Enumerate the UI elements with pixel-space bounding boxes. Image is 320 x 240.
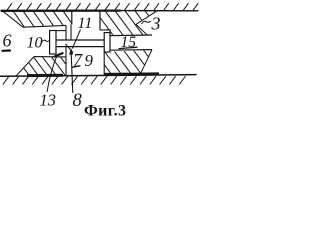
top-right wall right cut edges — [136, 11, 157, 35]
top-left wall left cut edge — [3, 11, 24, 27]
bottom-right block hatching — [93, 50, 162, 76]
bottom-right block left edge — [103, 52, 105, 75]
stem right line below wall — [70, 25, 72, 40]
svg-text:6: 6 — [3, 31, 12, 51]
leader line for 13 — [47, 56, 57, 93]
svg-text:11: 11 — [78, 15, 93, 32]
rod 7 bottom line — [56, 46, 104, 48]
bottom-left block hatching — [15, 56, 75, 76]
arrow 8 head — [69, 48, 73, 55]
floor surface line — [1, 75, 197, 77]
svg-text:3: 3 — [151, 14, 161, 34]
leader squiggle for 10 — [42, 40, 50, 42]
flange 10 (left disc) — [50, 31, 56, 55]
piston 9 (right disc) — [104, 33, 110, 52]
svg-text:9: 9 — [85, 51, 94, 70]
leader line for 7 — [66, 44, 74, 53]
bottom-left block top edge — [34, 56, 66, 58]
channel 15 top line — [110, 34, 152, 37]
svg-text:10: 10 — [27, 35, 43, 52]
top-left wall section hatching — [3, 11, 75, 28]
label 7 underline — [73, 66, 81, 67]
svg-text:13: 13 — [40, 91, 57, 110]
floor thick segment under right block — [104, 72, 159, 76]
wire: top wall outer surface line — [2, 9, 121, 11]
hatch ticks above top wall surface — [7, 3, 199, 11]
bottom-left block left cut edge — [16, 57, 34, 76]
background paper — [0, 0, 200, 120]
weld mark at flange bottom — [55, 53, 63, 56]
label 6 underline — [3, 49, 11, 51]
channel 15 bottom line — [110, 49, 152, 52]
leader squiggle for 3 — [142, 21, 151, 24]
top-right wall slot bottom edge above piston 9 — [100, 30, 110, 36]
svg-text:8: 8 — [73, 91, 83, 111]
bottom-right block right cut edge — [140, 50, 152, 75]
leader line for 11 — [72, 30, 80, 49]
hatch ticks below floor — [3, 76, 186, 84]
top-right wall section hatching — [95, 11, 174, 37]
top-left wall bottom edge — [23, 25, 66, 27]
stem left line / boss right edge — [65, 25, 67, 40]
boss top edge right of flange — [56, 30, 66, 32]
top-left wall right edge at window 11 — [71, 11, 73, 25]
top-right wall left edge at window 11 — [99, 11, 101, 30]
rod 7 top line — [56, 39, 104, 41]
wire: top wall outer surface line right thin part — [120, 10, 198, 12]
svg-text:Фиг.3: Фиг.3 — [84, 103, 126, 120]
label 15 underline — [119, 47, 137, 48]
bottom-left block right edge down from rod — [65, 47, 67, 76]
arrow 8 shaft — [71, 54, 73, 93]
floor thick segment under left block — [27, 74, 63, 77]
